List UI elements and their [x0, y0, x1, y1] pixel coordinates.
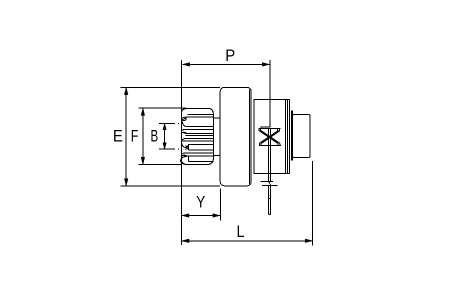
dimension B line	[164, 123, 166, 149]
svg-text:L: L	[236, 223, 244, 241]
dimension Y left arrow	[182, 214, 189, 218]
dimension Y right extension line	[219, 189, 221, 221]
dimension L left arrow	[182, 239, 189, 243]
dimension F top extension line	[138, 107, 186, 109]
snap ring top line with end ticks	[259, 129, 281, 131]
gear tooth line 4	[185, 128, 213, 130]
gear tooth line 2	[187, 116, 213, 118]
flange ring line 1	[287, 99, 289, 173]
gear tooth line 7	[185, 137, 213, 139]
dimension L line	[182, 240, 313, 242]
dimension B bottom extension dash-dot centerline	[159, 148, 179, 150]
dimension Y right arrow	[213, 214, 220, 218]
gear tooth line 3	[185, 126, 213, 128]
break symbol lower line	[262, 184, 277, 186]
shaft pin lower double line	[269, 185, 271, 214]
gear chamfer small loop	[183, 117, 186, 120]
gear chamfer tip mid-upper	[181, 129, 186, 133]
svg-text:F: F	[131, 128, 139, 146]
dimension E line	[125, 87, 127, 185]
shaft pin upper double line	[269, 129, 271, 182]
dimension E bottom arrow	[124, 179, 128, 186]
snap ring bottom line with end ticks	[259, 143, 281, 145]
gear tooth line 1	[188, 114, 214, 116]
dimension B bottom arrow	[163, 143, 166, 149]
dimension L right extension line	[312, 161, 314, 246]
gear chamfer tip mid-lower	[182, 153, 187, 156]
gear tooth line 5	[185, 132, 213, 134]
snap ring cross diagonal 2	[259, 131, 280, 144]
gear chamfer curl bottom	[181, 156, 189, 164]
dimension P right arrow	[262, 63, 269, 67]
extension line left shared by P Y L	[181, 60, 183, 245]
gear tooth line 8	[183, 140, 213, 142]
gear tooth line 6	[186, 135, 214, 137]
spline collar body	[254, 100, 286, 174]
gear chamfer curl top	[181, 109, 187, 127]
dimension E top arrow	[124, 88, 128, 95]
dimension B top arrow	[163, 124, 166, 130]
svg-text:P: P	[225, 47, 235, 65]
dimension E bottom extension line	[120, 185, 220, 187]
gear tooth box 1	[189, 145, 214, 151]
flange ring top cap	[286, 98, 290, 100]
svg-text:B: B	[150, 128, 158, 147]
gear tooth box 2	[189, 156, 214, 162]
barrel front edge inner line	[249, 90, 251, 185]
pinion gear outline	[181, 108, 213, 164]
flange ring line 2	[289, 99, 291, 173]
step ring	[291, 111, 292, 160]
dimension F line	[142, 108, 144, 164]
dimension F bottom arrow	[141, 157, 145, 164]
drive barrel	[220, 87, 251, 185]
gear chamfer hook line2	[184, 117, 187, 120]
dimension P left arrow	[183, 63, 190, 67]
dimension B top extension dash-dot centerline	[159, 122, 179, 124]
dimension F top arrow	[141, 108, 145, 115]
hub top line	[213, 117, 220, 119]
dimension Y line	[182, 215, 220, 217]
break jog	[269, 182, 271, 186]
dimension F bottom extension line	[138, 163, 182, 165]
gear chamfer curl middle	[182, 138, 187, 147]
shaft end cylinder	[293, 115, 310, 158]
dimension P line	[183, 63, 270, 65]
dimension E top extension line	[120, 86, 220, 88]
snap ring cross diagonal 1	[259, 131, 280, 144]
extension line right of P with jog to snap ring	[261, 60, 270, 129]
svg-text:Y: Y	[196, 193, 205, 212]
hub bottom line	[213, 155, 220, 157]
gear chamfer box1 knot	[185, 145, 188, 150]
svg-text:E: E	[113, 128, 123, 146]
break symbol upper line	[260, 181, 273, 183]
shaft pin bottom cap	[269, 214, 271, 216]
flange ring bottom cap	[286, 173, 290, 175]
gear tooth line 9	[185, 152, 213, 154]
dimension L right arrow	[305, 239, 312, 243]
shaft pin joint line	[269, 198, 271, 200]
